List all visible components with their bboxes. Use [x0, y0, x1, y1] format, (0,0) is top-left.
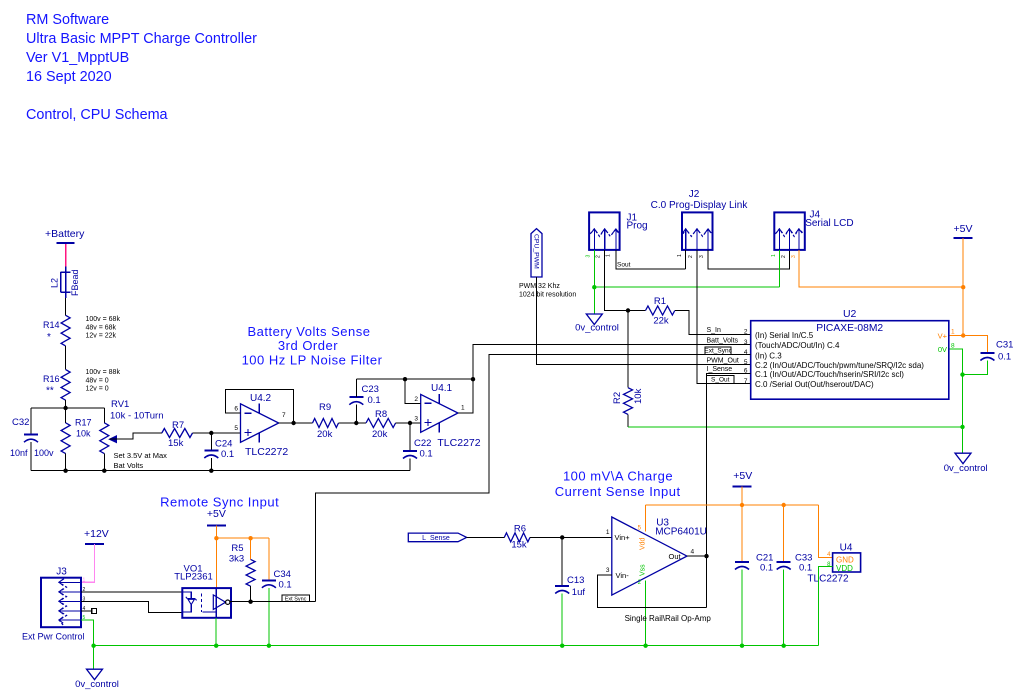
- wire L2 to R14: [65, 298, 67, 315]
- wire R16 to divider node: [65, 400, 67, 408]
- svg-text:Ext_Sync: Ext_Sync: [704, 348, 732, 355]
- svg-text:C13: C13: [567, 575, 584, 586]
- svg-text:Control, CPU Schema: Control, CPU Schema: [26, 107, 168, 123]
- svg-text:**: **: [46, 386, 54, 397]
- svg-text:RV1: RV1: [111, 399, 129, 410]
- svg-text:C.0 Prog-Display Link: C.0 Prog-Display Link: [651, 200, 749, 211]
- ground 0v_control right: [955, 453, 971, 464]
- svg-text:*: *: [47, 332, 51, 343]
- svg-text:0.1: 0.1: [760, 563, 773, 574]
- svg-text:RM Software: RM Software: [26, 12, 109, 28]
- svg-text:L_Sense: L_Sense: [422, 535, 450, 542]
- svg-text:3: 3: [586, 255, 592, 258]
- wire VO1 bottom green: [215, 618, 217, 646]
- capacitor C23: [355, 405, 357, 424]
- svg-text:L2: L2: [50, 278, 60, 288]
- svg-text:C31: C31: [996, 340, 1013, 351]
- resistor R14: [61, 315, 70, 346]
- svg-text:R1: R1: [654, 296, 666, 307]
- connector J3 Ext Pwr Control: [41, 578, 81, 628]
- svg-text:C24: C24: [215, 439, 232, 450]
- svg-text:+5V: +5V: [954, 223, 973, 235]
- resistor R7: [162, 429, 193, 438]
- VO1 internal buffer: [215, 588, 217, 618]
- resistor R17: [65, 408, 67, 423]
- VO1 internal LED: [182, 592, 191, 599]
- svg-text:1: 1: [951, 329, 955, 336]
- svg-text:Ver V1_MpptUB: Ver V1_MpptUB: [26, 50, 129, 66]
- wire +Battery to L2: [65, 244, 67, 267]
- svg-text:5: 5: [744, 359, 748, 366]
- svg-text:100v = 88k: 100v = 88k: [86, 369, 121, 376]
- svg-text:C.0 /Serial Out(Out/hserout/DA: C.0 /Serial Out(Out/hserout/DAC): [755, 380, 874, 389]
- svg-text:Ext Pwr Control: Ext Pwr Control: [22, 632, 85, 642]
- svg-text:15k: 15k: [511, 540, 527, 551]
- svg-text:16 Sept 2020: 16 Sept 2020: [26, 69, 112, 85]
- capacitor C34: [262, 579, 276, 581]
- green 0v rail bottom: [94, 645, 819, 647]
- IC U4 TLC2272 power part: [833, 553, 861, 572]
- wire J1 pin1 Sout to J2 pin1: [616, 250, 686, 269]
- wire J4 pin1 green to rail: [778, 250, 780, 287]
- optocoupler VO1 TLP2361: [182, 588, 231, 618]
- svg-text:1uf: 1uf: [572, 587, 586, 598]
- svg-text:V+: V+: [938, 331, 948, 340]
- svg-text:R14: R14: [43, 320, 60, 330]
- svg-text:I_Sense: I_Sense: [707, 366, 733, 373]
- svg-text:C34: C34: [274, 569, 291, 580]
- wire orange to U4 GND pin4: [818, 505, 832, 558]
- wire +12V pink to J3 pin1: [81, 544, 95, 582]
- svg-text:R9: R9: [319, 402, 331, 413]
- svg-text:0V: 0V: [938, 345, 947, 354]
- IC U2 PICAXE-08M2: [751, 321, 949, 400]
- capacitor C24: [210, 433, 212, 451]
- svg-text:+5V: +5V: [733, 470, 752, 482]
- U3 Vss stub green: [645, 581, 647, 646]
- svg-text:Serial LCD: Serial LCD: [805, 218, 853, 229]
- svg-text:100v: 100v: [34, 448, 54, 458]
- capacitor C32: [30, 408, 32, 435]
- svg-text:22k: 22k: [653, 316, 669, 327]
- node divider top rail: [31, 407, 104, 409]
- svg-text:R8: R8: [375, 409, 387, 420]
- wire Ext_Sync U2 pin4 to opto output: [316, 355, 751, 602]
- svg-text:J3: J3: [56, 567, 67, 578]
- svg-text:U4.2: U4.2: [250, 393, 272, 404]
- svg-text:(In) C.3: (In) C.3: [755, 351, 782, 360]
- connector J1 Prog: [589, 212, 620, 250]
- svg-text:100 Hz LP Noise Filter: 100 Hz LP Noise Filter: [242, 353, 383, 368]
- svg-text:12v = 22k: 12v = 22k: [86, 333, 117, 340]
- svg-text:1: 1: [461, 405, 465, 412]
- svg-text:3: 3: [791, 255, 797, 258]
- wire U3 feedback Vin-: [597, 575, 706, 608]
- resistor R6: [504, 533, 530, 542]
- svg-text:2: 2: [596, 255, 602, 258]
- connector J2 C.0 Prog-Display Link: [682, 212, 713, 250]
- svg-text:0v_control: 0v_control: [944, 463, 988, 474]
- svg-text:Ultra Basic MPPT Charge Contro: Ultra Basic MPPT Charge Controller: [26, 31, 257, 47]
- svg-text:0.1: 0.1: [368, 395, 381, 406]
- svg-text:Prog: Prog: [627, 221, 648, 232]
- svg-text:+12V: +12V: [84, 528, 109, 540]
- svg-text:Out: Out: [669, 552, 682, 561]
- wire +5V to U2 V+ pin1: [962, 287, 964, 335]
- svg-text:TLC2272: TLC2272: [437, 437, 480, 449]
- svg-text:6: 6: [234, 406, 238, 413]
- wire U4.1 - feedback: [405, 379, 421, 403]
- wire R1 to U2 S_In pin2: [675, 311, 751, 335]
- svg-text:Set 3.5V at Max: Set 3.5V at Max: [114, 451, 168, 460]
- wire I_Sense U2 pin6 to U3 output: [707, 373, 751, 607]
- svg-text:0v_control: 0v_control: [75, 679, 119, 690]
- svg-text:0.1: 0.1: [221, 449, 234, 460]
- svg-text:R16: R16: [43, 374, 60, 384]
- svg-text:2: 2: [781, 255, 787, 258]
- svg-text:R5: R5: [231, 543, 243, 554]
- svg-text:PWM_Out: PWM_Out: [707, 357, 739, 364]
- svg-text:R2: R2: [612, 392, 623, 404]
- wire R2 bottom green to 0v: [628, 426, 963, 428]
- port box Ext_Sync: [705, 347, 731, 355]
- wire R8 to U4.1 +: [396, 422, 421, 424]
- wire R7 to U4.2 +: [193, 432, 241, 434]
- svg-text:Current Sense Input: Current Sense Input: [555, 484, 681, 499]
- inductor L2 FBead: [65, 267, 67, 298]
- bottom rail of divider: [31, 470, 410, 472]
- svg-text:1024 bit resolution: 1024 bit resolution: [519, 292, 576, 299]
- svg-text:12v = 0: 12v = 0: [86, 386, 109, 393]
- svg-text:7: 7: [282, 412, 286, 419]
- wire J2 pin1 stub: [685, 250, 687, 269]
- svg-text:FBead: FBead: [70, 269, 80, 296]
- op-amp U4.1 TLC2272: [421, 394, 458, 432]
- svg-text:3k3: 3k3: [229, 554, 244, 565]
- capacitor C22: [409, 423, 411, 451]
- svg-text:Batt_Volts: Batt_Volts: [707, 337, 739, 344]
- svg-text:Bat Volts: Bat Volts: [114, 461, 144, 470]
- svg-text:R7: R7: [172, 420, 184, 431]
- svg-text:0v_control: 0v_control: [575, 323, 619, 334]
- svg-text:R17: R17: [75, 418, 92, 428]
- potentiometer RV1: [103, 408, 105, 423]
- svg-text:0.1: 0.1: [279, 580, 292, 591]
- wire J1 pin2 to R1: [605, 250, 646, 311]
- wire J2 pin2 to U2 S_Out pin7: [697, 250, 751, 384]
- svg-text:TLC2272: TLC2272: [245, 446, 288, 458]
- no-connect J3 pin4: [81, 610, 92, 612]
- wire L_Sense to R6: [467, 536, 505, 538]
- svg-text:(Touch/ADC/Out/In) C.4: (Touch/ADC/Out/In) C.4: [755, 341, 840, 350]
- svg-text:3rd Order: 3rd Order: [278, 338, 338, 353]
- svg-text:3: 3: [414, 416, 418, 423]
- wire J2 pin3 to J4 pin2: [708, 250, 789, 269]
- svg-text:Single Rail\Rail Op-Amp: Single Rail\Rail Op-Amp: [625, 614, 712, 623]
- resistor R5: [250, 538, 252, 559]
- wire CPU_PWM to U2 PWM_Out pin 5: [536, 277, 750, 365]
- svg-text:0.1: 0.1: [998, 352, 1011, 363]
- svg-text:C.1 (In/Out/ADC/Touch/hserin/S: C.1 (In/Out/ADC/Touch/hserin/SRI/I2c scl…: [755, 370, 904, 379]
- ground 0v_control at J1: [586, 314, 602, 325]
- wire C31 bottom green: [963, 361, 988, 375]
- svg-text:+Battery: +Battery: [45, 228, 85, 240]
- resistor R9: [313, 419, 339, 428]
- wire R6 to U3 Vin+: [530, 536, 612, 538]
- svg-text:Vin+: Vin+: [615, 533, 631, 542]
- svg-text:C23: C23: [362, 384, 379, 395]
- ground 0v_control bottom left: [93, 646, 95, 670]
- svg-text:2: 2: [744, 329, 748, 336]
- svg-text:100 mV\A Charge: 100 mV\A Charge: [563, 469, 673, 484]
- svg-text:PICAXE-08M2: PICAXE-08M2: [816, 323, 883, 334]
- resistor R2: [627, 311, 629, 388]
- wire U4 VDD green to 0v rail: [818, 567, 832, 646]
- capacitor C33: [783, 505, 785, 562]
- svg-text:U4.1: U4.1: [431, 383, 453, 394]
- port flag L_Sense: [408, 533, 466, 542]
- wire J3 pin5 green to 0v rail: [81, 620, 94, 646]
- svg-text:S_Out: S_Out: [711, 376, 730, 383]
- wire U4.2 output: [279, 422, 313, 424]
- wire green to ground: [593, 287, 595, 314]
- capacitor C31: [980, 352, 994, 354]
- svg-text:10k: 10k: [633, 388, 644, 404]
- svg-text:J2: J2: [689, 189, 700, 200]
- svg-text:10k - 10Turn: 10k - 10Turn: [110, 411, 164, 422]
- svg-text:CPU_PWM: CPU_PWM: [532, 234, 539, 269]
- RV1 wiper arrow: [109, 436, 116, 443]
- svg-text:GND: GND: [836, 555, 854, 564]
- svg-text:2: 2: [414, 396, 418, 403]
- orange rail to R5 and C34: [216, 537, 269, 539]
- svg-text:1: 1: [606, 254, 612, 257]
- svg-text:Vin-: Vin-: [616, 571, 630, 580]
- svg-text:U2: U2: [843, 308, 857, 320]
- connector J4 Serial LCD: [774, 212, 805, 250]
- svg-text:3: 3: [606, 567, 610, 574]
- green rail to J4: [594, 286, 779, 288]
- resistor R8: [366, 419, 396, 428]
- wire U3 output: [687, 555, 707, 557]
- svg-text:Battery Volts Sense: Battery Volts Sense: [248, 324, 371, 339]
- svg-text:7: 7: [744, 378, 748, 385]
- wire U4.1 output to Batt_Volts: [458, 345, 751, 414]
- svg-text:15k: 15k: [168, 438, 184, 449]
- svg-text:TLP2361: TLP2361: [174, 572, 213, 583]
- wire R14 to R16: [65, 346, 67, 370]
- svg-text:1: 1: [771, 254, 777, 257]
- svg-text:S_In: S_In: [707, 327, 722, 334]
- op-amp U4.2 TLC2272: [241, 404, 279, 443]
- svg-text:1: 1: [606, 529, 610, 536]
- capacitor C13: [561, 537, 563, 586]
- svg-text:+5V: +5V: [207, 508, 226, 520]
- wire J4 pin3 orange +5V: [799, 250, 963, 287]
- svg-text:10k: 10k: [76, 429, 91, 439]
- svg-text:3: 3: [699, 255, 705, 258]
- svg-text:8: 8: [951, 342, 955, 349]
- port box S_Out: [707, 375, 735, 383]
- svg-text:5: 5: [234, 425, 238, 432]
- svg-text:Vdd: Vdd: [639, 537, 646, 550]
- wire R9 to R8: [339, 422, 367, 424]
- svg-text:R6: R6: [514, 524, 526, 535]
- svg-text:100v = 68k: 100v = 68k: [86, 316, 121, 323]
- wire V+ node to C31: [963, 336, 987, 354]
- wire VO1 output Ext Sync: [230, 601, 316, 603]
- net label box Ext Sync: [282, 595, 309, 602]
- svg-text:MCP6401U: MCP6401U: [655, 527, 707, 538]
- wire C23 top to U4.1 output node: [356, 378, 473, 380]
- svg-text:10nf: 10nf: [10, 448, 28, 458]
- svg-text:20k: 20k: [372, 429, 388, 440]
- wire U4.2 - input and feedback: [226, 389, 294, 423]
- net flag CPU_PWM: [531, 229, 542, 277]
- svg-text:0.1: 0.1: [420, 449, 433, 460]
- resistor R16: [61, 370, 70, 401]
- wire J1 pin3 green to 0v rail: [593, 250, 595, 287]
- svg-text:Ext Sync: Ext Sync: [285, 597, 307, 603]
- svg-text:U4: U4: [840, 543, 853, 554]
- svg-text:4: 4: [691, 549, 695, 556]
- VO1 internal dashed isolation: [200, 594, 202, 612]
- resistor R1: [646, 306, 675, 315]
- svg-text:0.1: 0.1: [799, 563, 812, 574]
- wire J3 pin3 to VO1: [81, 601, 183, 612]
- svg-text:(In) Serial In/C.5: (In) Serial In/C.5: [755, 331, 814, 340]
- svg-text:1: 1: [677, 254, 683, 257]
- svg-text:PWM 32 Khz: PWM 32 Khz: [519, 283, 560, 290]
- svg-text:1: 1: [83, 578, 86, 584]
- svg-text:C.2 (In/Out/ADC/Touch/pwm/tune: C.2 (In/Out/ADC/Touch/pwm/tune/SRQ/I2c s…: [755, 361, 924, 370]
- svg-text:TLC2272: TLC2272: [807, 574, 849, 585]
- svg-text:2: 2: [688, 255, 694, 258]
- orange +5V rail current sense: [646, 504, 819, 506]
- wire U2 0V pin8 green to ground: [949, 349, 963, 453]
- svg-text:48v = 0: 48v = 0: [86, 377, 109, 384]
- capacitor C21: [741, 505, 743, 562]
- U3 Vdd stub orange: [645, 505, 647, 532]
- svg-text:C22: C22: [414, 438, 431, 449]
- svg-text:3: 3: [744, 339, 748, 346]
- svg-text:20k: 20k: [317, 429, 333, 440]
- op-amp U3 MCP6401U: [612, 517, 687, 595]
- svg-text:Vss: Vss: [639, 564, 646, 576]
- svg-text:VDD: VDD: [836, 564, 853, 573]
- svg-text:48v = 68k: 48v = 68k: [86, 324, 117, 331]
- svg-text:C32: C32: [12, 417, 29, 428]
- svg-text:Sout: Sout: [617, 262, 631, 269]
- wire J3 pin2 to VO1: [81, 591, 183, 593]
